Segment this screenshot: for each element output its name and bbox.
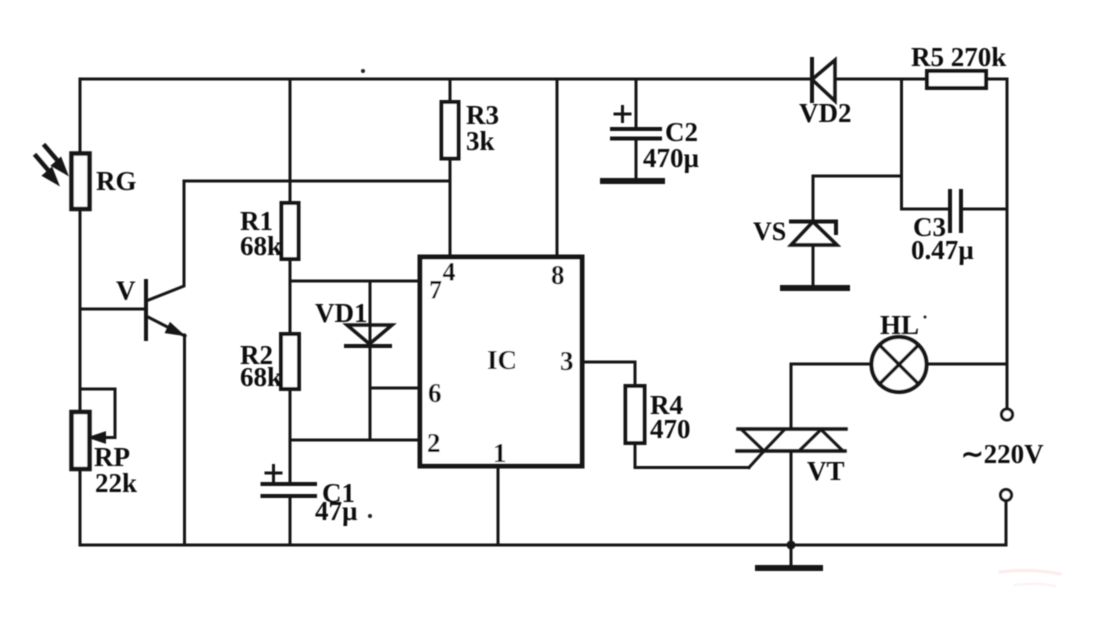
svg-text:68k: 68k	[240, 231, 282, 261]
base wire	[80, 308, 146, 311]
capacitor C2	[612, 79, 660, 181]
svg-text:22k: 22k	[95, 468, 137, 498]
light arrow 1	[45, 146, 66, 173]
wire pin1	[497, 466, 500, 545]
collector	[146, 181, 184, 301]
svg-text:4: 4	[443, 258, 456, 287]
svg-text:VT: VT	[807, 456, 845, 486]
light arrow 2	[36, 156, 57, 183]
svg-text:∼220V: ∼220V	[961, 439, 1044, 469]
capacitor C3	[902, 79, 1008, 231]
svg-text:0.47µ: 0.47µ	[911, 235, 974, 265]
potentiometer RP	[72, 389, 116, 469]
svg-text:IC: IC	[487, 345, 517, 375]
svg-text:HL: HL	[880, 310, 919, 340]
diode VD2	[812, 59, 835, 101]
resistor R2	[281, 281, 299, 440]
wire pin2	[290, 439, 420, 442]
photoresistor RG	[72, 154, 90, 210]
base bar	[144, 281, 148, 339]
wire top bus right of VD2	[835, 78, 1007, 81]
ground VT	[758, 545, 820, 568]
wire pin6	[370, 387, 420, 390]
op-amp IC U1	[420, 257, 582, 466]
svg-text:8: 8	[551, 260, 565, 290]
diode VD1	[346, 281, 392, 440]
svg-text:1: 1	[493, 438, 507, 468]
svg-text:VD1: VD1	[315, 298, 368, 328]
resistor R1	[282, 79, 299, 281]
ground VS	[783, 285, 847, 291]
svg-text:6: 6	[428, 378, 442, 408]
svg-text:470: 470	[650, 414, 691, 444]
svg-text:470µ: 470µ	[643, 143, 700, 173]
wire R4 to gate	[635, 443, 749, 468]
speck 2	[368, 514, 372, 518]
wire collector to R3 node	[184, 180, 450, 183]
svg-text:VS: VS	[753, 217, 786, 246]
gate diagonal	[749, 451, 764, 468]
smudge	[1000, 570, 1060, 574]
triac VT	[737, 364, 846, 545]
capacitor C1	[263, 440, 316, 545]
terminal lower	[1001, 490, 1012, 501]
wire right rail	[1006, 79, 1009, 409]
junction dot	[787, 541, 796, 550]
terminal upper	[1002, 409, 1013, 420]
resistor R4	[626, 386, 645, 443]
resistor R5	[927, 71, 986, 88]
wire pin3 to R4	[582, 362, 635, 386]
wire bottom bus	[80, 544, 1006, 547]
svg-text:7: 7	[429, 276, 442, 305]
ground C2	[603, 178, 662, 184]
svg-text:3k: 3k	[466, 126, 495, 156]
zener VS	[791, 176, 902, 288]
wire top bus	[80, 78, 812, 81]
speck 1	[361, 69, 365, 73]
lamp HL	[791, 337, 1007, 392]
wire pin7	[290, 280, 420, 283]
svg-text:RG: RG	[96, 166, 137, 196]
speck 3	[924, 316, 927, 319]
svg-text:47µ: 47µ	[315, 496, 358, 526]
svg-text:R5 270k: R5 270k	[911, 42, 1006, 72]
wire pin8 riser	[556, 79, 559, 257]
svg-text:V: V	[116, 276, 136, 306]
resistor R3	[442, 79, 459, 257]
transistor V	[80, 181, 185, 545]
emitter	[146, 316, 185, 336]
svg-text:VD2: VD2	[799, 98, 852, 128]
wire lower terminal	[1005, 501, 1008, 546]
svg-text:2: 2	[427, 428, 441, 458]
svg-text:68k: 68k	[240, 362, 282, 392]
svg-text:3: 3	[560, 346, 574, 376]
wire left rail	[79, 79, 82, 545]
